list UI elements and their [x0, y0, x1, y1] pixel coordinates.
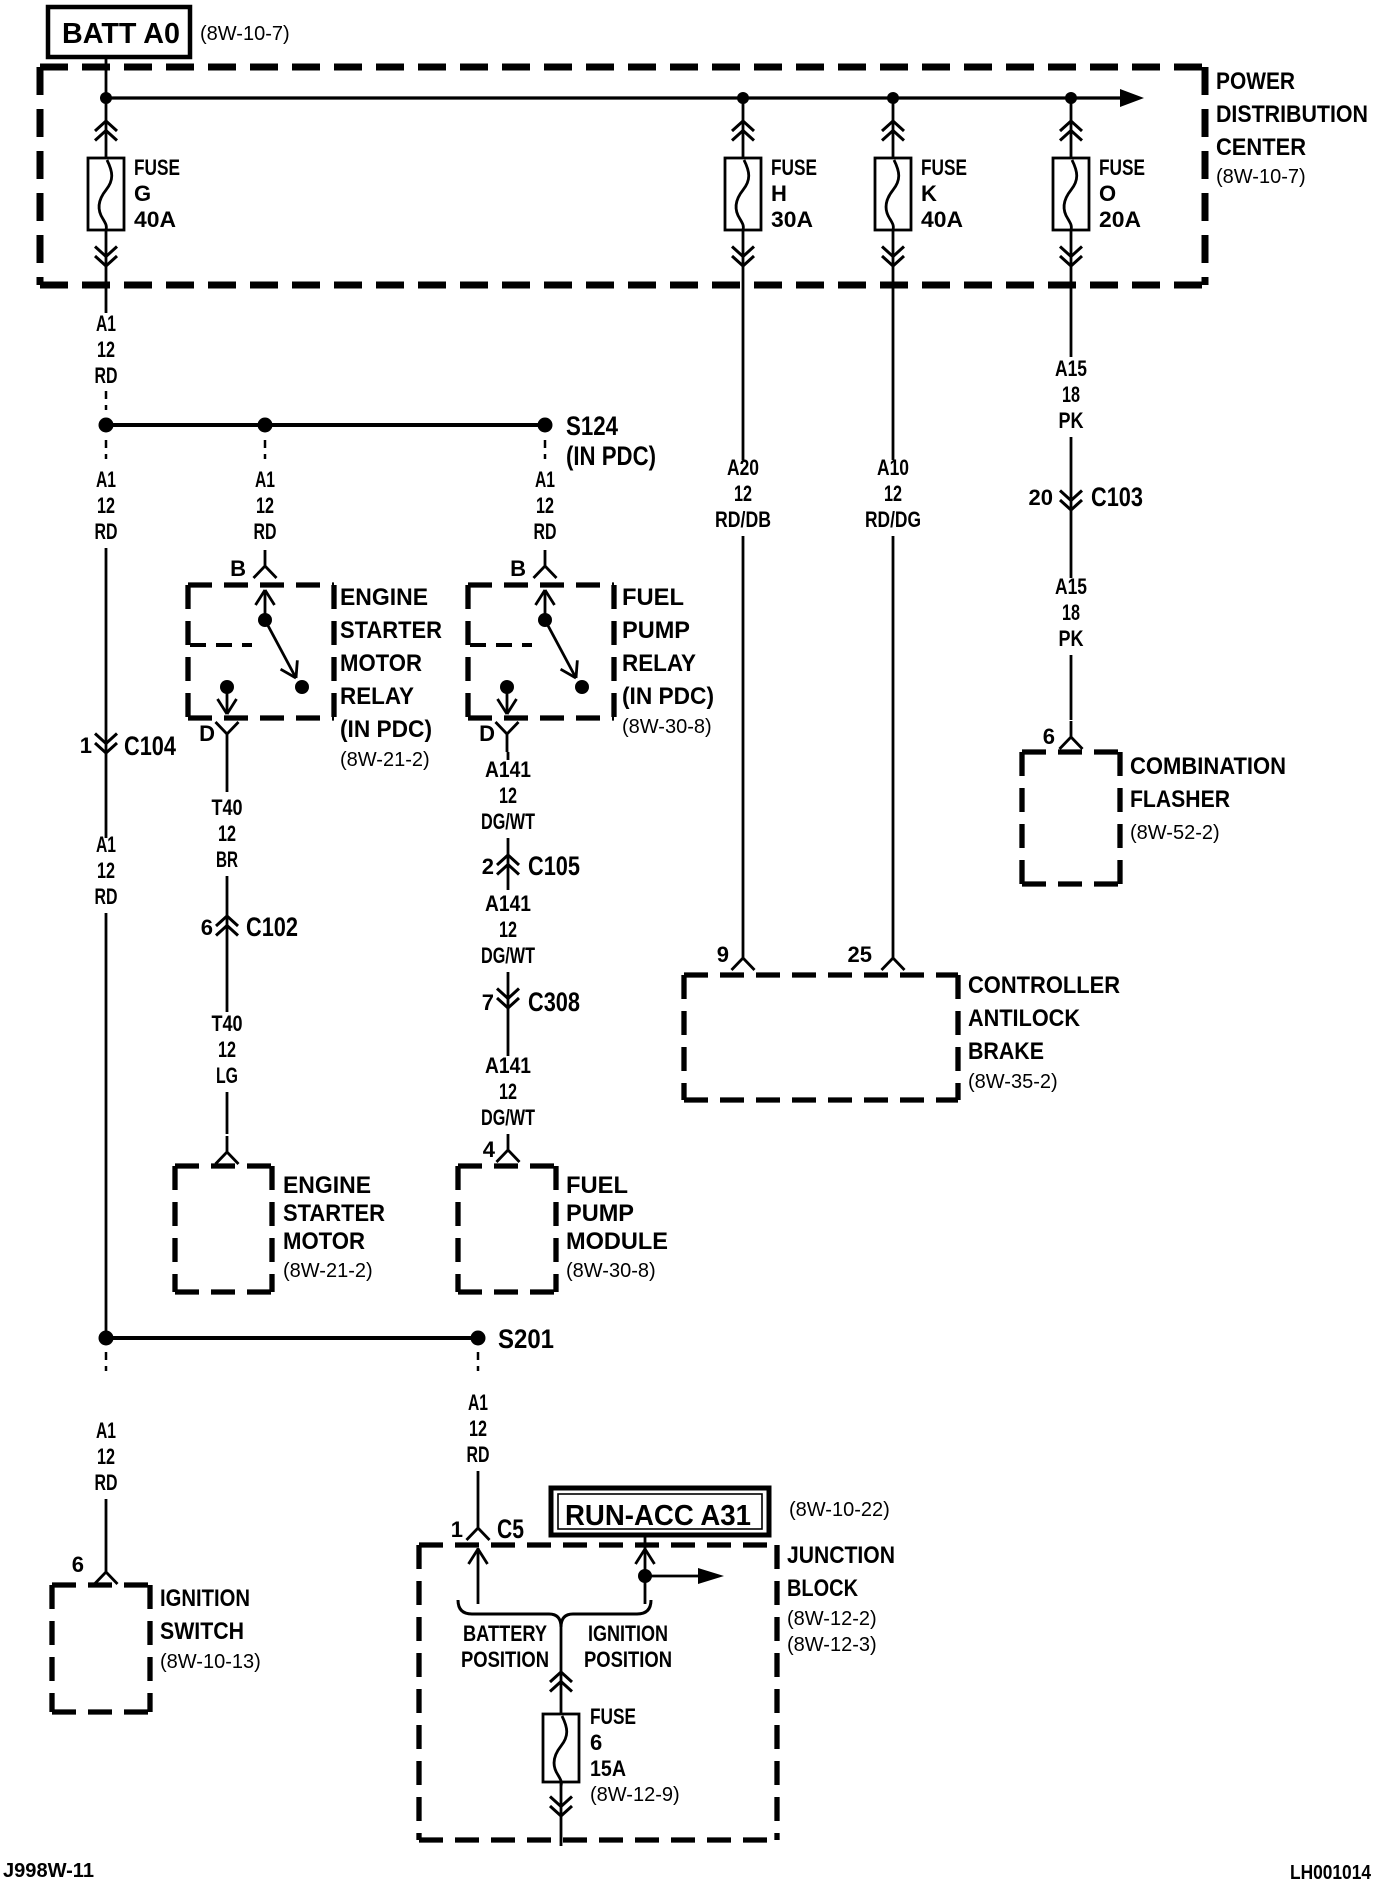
svg-text:12: 12: [97, 337, 115, 362]
svg-text:D: D: [479, 721, 495, 746]
svg-text:RD: RD: [95, 884, 118, 909]
svg-text:H: H: [771, 181, 787, 206]
svg-text:A10: A10: [877, 455, 909, 480]
svg-text:J998W-11: J998W-11: [3, 1860, 94, 1882]
svg-text:ENGINE: ENGINE: [340, 584, 428, 611]
svg-text:CONTROLLER: CONTROLLER: [968, 972, 1120, 999]
svg-text:FUSE: FUSE: [1099, 155, 1145, 180]
svg-text:(8W-52-2): (8W-52-2): [1130, 822, 1220, 844]
svg-text:15A: 15A: [590, 1756, 626, 1781]
svg-text:A15: A15: [1055, 356, 1087, 381]
svg-text:B: B: [230, 556, 246, 581]
svg-text:RD: RD: [95, 1470, 118, 1495]
svg-text:C103: C103: [1091, 482, 1143, 512]
svg-text:12: 12: [97, 493, 115, 518]
svg-text:(8W-35-2): (8W-35-2): [968, 1071, 1058, 1093]
svg-text:1: 1: [80, 733, 92, 758]
svg-text:MOTOR: MOTOR: [283, 1228, 365, 1255]
svg-text:PUMP: PUMP: [622, 617, 690, 644]
svg-text:BATTERY: BATTERY: [463, 1621, 547, 1646]
svg-text:20: 20: [1029, 485, 1053, 510]
svg-text:(8W-10-7): (8W-10-7): [1216, 166, 1306, 188]
svg-text:STARTER: STARTER: [283, 1200, 385, 1227]
svg-text:6: 6: [72, 1552, 84, 1577]
svg-text:JUNCTION: JUNCTION: [787, 1542, 895, 1569]
svg-text:DG/WT: DG/WT: [481, 809, 535, 834]
svg-text:18: 18: [1062, 382, 1080, 407]
svg-text:K: K: [921, 181, 937, 206]
svg-text:FUEL: FUEL: [566, 1172, 628, 1199]
svg-text:7: 7: [482, 990, 494, 1015]
svg-text:(8W-10-13): (8W-10-13): [160, 1651, 261, 1673]
svg-text:ENGINE: ENGINE: [283, 1172, 371, 1199]
svg-text:(IN PDC): (IN PDC): [622, 683, 714, 710]
svg-text:12: 12: [499, 783, 517, 808]
svg-text:RUN-ACC A31: RUN-ACC A31: [565, 1500, 751, 1532]
svg-text:RELAY: RELAY: [340, 683, 414, 710]
svg-text:12: 12: [469, 1416, 487, 1441]
svg-text:A1: A1: [96, 832, 116, 857]
svg-text:A1: A1: [255, 467, 275, 492]
svg-text:A15: A15: [1055, 574, 1087, 599]
svg-text:RELAY: RELAY: [622, 650, 696, 677]
svg-text:RD: RD: [534, 519, 557, 544]
svg-text:FUSE: FUSE: [590, 1704, 636, 1729]
svg-text:MOTOR: MOTOR: [340, 650, 422, 677]
svg-text:IGNITION: IGNITION: [588, 1621, 668, 1646]
svg-text:12: 12: [218, 821, 236, 846]
svg-text:T40: T40: [212, 795, 243, 820]
svg-text:MODULE: MODULE: [566, 1228, 668, 1255]
svg-text:6: 6: [201, 915, 213, 940]
svg-text:20A: 20A: [1099, 207, 1141, 232]
svg-text:T40: T40: [212, 1011, 243, 1036]
svg-text:(8W-12-2): (8W-12-2): [787, 1608, 877, 1630]
svg-text:A20: A20: [727, 455, 759, 480]
svg-text:BLOCK: BLOCK: [787, 1575, 859, 1602]
svg-text:12: 12: [499, 1079, 517, 1104]
svg-text:RD: RD: [467, 1442, 490, 1467]
svg-text:POSITION: POSITION: [461, 1647, 549, 1672]
svg-text:S201: S201: [498, 1324, 554, 1354]
svg-text:9: 9: [717, 942, 729, 967]
svg-text:LG: LG: [216, 1063, 238, 1088]
svg-text:6: 6: [1043, 724, 1055, 749]
svg-text:4: 4: [483, 1137, 496, 1162]
svg-text:PK: PK: [1059, 626, 1084, 651]
svg-text:B: B: [510, 556, 526, 581]
svg-text:A1: A1: [96, 467, 116, 492]
svg-text:CENTER: CENTER: [1216, 134, 1306, 161]
svg-text:FLASHER: FLASHER: [1130, 786, 1230, 813]
svg-text:ANTILOCK: ANTILOCK: [968, 1005, 1081, 1032]
svg-text:BATT A0: BATT A0: [62, 18, 180, 50]
svg-text:12: 12: [218, 1037, 236, 1062]
svg-text:RD/DG: RD/DG: [865, 507, 921, 532]
svg-text:FUSE: FUSE: [134, 155, 180, 180]
svg-text:12: 12: [499, 917, 517, 942]
svg-text:LH001014: LH001014: [1290, 1862, 1372, 1884]
svg-text:PUMP: PUMP: [566, 1200, 634, 1227]
svg-text:POSITION: POSITION: [584, 1647, 672, 1672]
svg-text:S124: S124: [566, 411, 618, 441]
svg-text:1: 1: [451, 1517, 463, 1542]
svg-text:RD: RD: [254, 519, 277, 544]
svg-text:12: 12: [734, 481, 752, 506]
svg-text:FUSE: FUSE: [921, 155, 967, 180]
svg-text:40A: 40A: [921, 207, 963, 232]
svg-text:A1: A1: [96, 311, 116, 336]
svg-text:(IN PDC): (IN PDC): [566, 441, 656, 471]
svg-text:A141: A141: [485, 891, 531, 916]
svg-text:C5: C5: [497, 1514, 524, 1544]
svg-text:DISTRIBUTION: DISTRIBUTION: [1216, 101, 1368, 128]
svg-text:SWITCH: SWITCH: [160, 1618, 244, 1645]
svg-text:C105: C105: [528, 851, 580, 881]
svg-text:2: 2: [482, 854, 494, 879]
svg-text:30A: 30A: [771, 207, 813, 232]
svg-text:POWER: POWER: [1216, 68, 1295, 95]
svg-text:STARTER: STARTER: [340, 617, 442, 644]
svg-text:C308: C308: [528, 987, 580, 1017]
svg-text:12: 12: [536, 493, 554, 518]
svg-text:DG/WT: DG/WT: [481, 1105, 535, 1130]
svg-text:A141: A141: [485, 757, 531, 782]
svg-text:(8W-30-8): (8W-30-8): [566, 1260, 656, 1282]
svg-text:FUSE: FUSE: [771, 155, 817, 180]
svg-text:PK: PK: [1059, 408, 1084, 433]
svg-text:BRAKE: BRAKE: [968, 1038, 1044, 1065]
svg-text:G: G: [134, 181, 151, 206]
svg-text:(8W-10-7): (8W-10-7): [200, 23, 290, 45]
svg-text:O: O: [1099, 181, 1116, 206]
svg-text:18: 18: [1062, 600, 1080, 625]
svg-text:D: D: [199, 721, 215, 746]
svg-text:12: 12: [884, 481, 902, 506]
svg-text:12: 12: [97, 858, 115, 883]
svg-text:DG/WT: DG/WT: [481, 943, 535, 968]
svg-text:6: 6: [590, 1730, 602, 1755]
svg-text:A141: A141: [485, 1053, 531, 1078]
svg-text:BR: BR: [216, 847, 238, 872]
svg-text:(IN PDC): (IN PDC): [340, 716, 432, 743]
svg-text:A1: A1: [468, 1390, 488, 1415]
svg-text:12: 12: [256, 493, 274, 518]
svg-text:(8W-21-2): (8W-21-2): [340, 749, 430, 771]
svg-text:(8W-12-3): (8W-12-3): [787, 1634, 877, 1656]
svg-text:C102: C102: [246, 912, 298, 942]
svg-text:IGNITION: IGNITION: [160, 1585, 250, 1612]
svg-text:(8W-21-2): (8W-21-2): [283, 1260, 373, 1282]
svg-text:25: 25: [848, 942, 872, 967]
svg-text:RD: RD: [95, 363, 118, 388]
svg-text:(8W-10-22): (8W-10-22): [789, 1499, 890, 1521]
svg-text:A1: A1: [96, 1418, 116, 1443]
svg-text:C104: C104: [124, 731, 176, 761]
svg-text:RD/DB: RD/DB: [715, 507, 771, 532]
svg-text:(8W-12-9): (8W-12-9): [590, 1784, 680, 1806]
svg-text:40A: 40A: [134, 207, 176, 232]
svg-text:RD: RD: [95, 519, 118, 544]
svg-text:12: 12: [97, 1444, 115, 1469]
svg-text:A1: A1: [535, 467, 555, 492]
svg-text:COMBINATION: COMBINATION: [1130, 753, 1286, 780]
svg-text:(8W-30-8): (8W-30-8): [622, 716, 712, 738]
svg-text:FUEL: FUEL: [622, 584, 684, 611]
